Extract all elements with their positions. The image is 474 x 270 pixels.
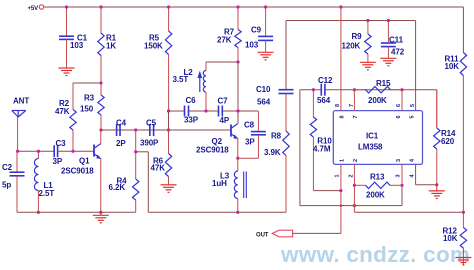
junction C9 top rail: [264, 5, 267, 8]
wire pin3 vertical: [401, 185, 403, 205]
label R4: [109, 177, 128, 193]
junction R7 top rail: [236, 5, 239, 8]
label R5: [144, 34, 163, 51]
svg-text:IC1: IC1: [366, 132, 379, 141]
svg-text:R3: R3: [84, 94, 95, 103]
label R9: [342, 32, 363, 51]
svg-text:47K: 47K: [55, 107, 70, 116]
junction pin8 rail: [339, 5, 342, 8]
svg-text:3: 3: [396, 159, 402, 162]
label R10: [313, 137, 332, 154]
resistor R3: [98, 83, 104, 130]
ground at pin4/R14: [429, 185, 445, 199]
junction R5 top rail: [167, 5, 170, 8]
svg-text:OUT: OUT: [256, 232, 269, 238]
arrow of adjustable L2: [197, 71, 202, 92]
junction R6 top node: [167, 128, 170, 131]
label L2: [173, 68, 194, 84]
wire C6 C7 oscillator node: [169, 110, 259, 112]
ground below R6: [161, 185, 177, 193]
resistor R1: [98, 7, 104, 83]
junction Q1 emitter rail: [99, 211, 102, 214]
svg-text:1: 1: [340, 159, 346, 162]
junction pin6 node: [400, 88, 403, 91]
svg-text:7: 7: [353, 115, 359, 118]
capacitor C12: [321, 84, 325, 96]
wire C10 top vertical: [285, 21, 287, 90]
wire pin4 to ground node: [416, 164, 437, 184]
pin 3 wire: [401, 164, 403, 185]
junction R3 bottom node: [99, 128, 102, 131]
svg-text:C9: C9: [251, 26, 262, 35]
svg-text:10K: 10K: [443, 234, 458, 243]
wire +5V top rail: [44, 6, 464, 8]
junction pin1 node: [339, 189, 342, 192]
svg-text:3: 3: [396, 174, 402, 177]
wire R5 bottom vertical: [168, 111, 170, 130]
svg-text:390P: 390P: [140, 139, 159, 148]
label R2: [55, 99, 70, 116]
transistor Q1: [94, 130, 101, 212]
ground below R12: [455, 248, 471, 266]
svg-text:103: 103: [245, 41, 259, 50]
label R12: [443, 226, 458, 243]
label C7: [218, 97, 230, 126]
svg-text:120K: 120K: [342, 42, 361, 51]
pin 6 wire: [401, 90, 403, 111]
junction pin3 R13 node: [400, 184, 403, 187]
label C12: [317, 76, 333, 105]
pin number 2: [349, 159, 360, 178]
junction C6 left node: [167, 109, 170, 112]
op-amp IC1 LM358 body: [333, 111, 422, 165]
junction C11 top: [387, 19, 390, 22]
capacitor C11: [381, 21, 396, 59]
svg-text:R8: R8: [271, 132, 282, 141]
svg-text:ANT: ANT: [13, 97, 29, 106]
label R3: [80, 94, 95, 114]
watermark www.cndzz.com: [280, 242, 470, 267]
junction pin1 crossing: [340, 204, 343, 207]
wire R1 bottom to R2 top: [73, 82, 101, 84]
svg-text:2SC9018: 2SC9018: [196, 146, 229, 155]
capacitor C10: [279, 90, 294, 131]
svg-text:C4: C4: [116, 119, 127, 128]
svg-text:2SC9018: 2SC9018: [61, 167, 94, 176]
junction L1 bottom rail: [37, 211, 40, 214]
wire R10 bottom to pin1: [313, 190, 341, 192]
svg-text:10K: 10K: [445, 62, 460, 71]
inductor L1: [34, 151, 38, 212]
junction R9 top: [366, 19, 369, 22]
svg-text:1: 1: [335, 174, 341, 177]
wire pin1 out to arrow: [293, 232, 341, 234]
svg-text:R9: R9: [352, 32, 363, 41]
label R1: [106, 34, 117, 51]
svg-text:2.5T: 2.5T: [39, 189, 55, 198]
ground below C11: [380, 58, 396, 66]
inductor L2: [203, 62, 206, 111]
svg-text:C8: C8: [244, 121, 255, 130]
svg-text:2P: 2P: [116, 139, 126, 148]
resistor R11: [460, 53, 466, 212]
junction L1 top: [37, 150, 40, 153]
ground below C1: [59, 68, 75, 76]
svg-text:3P: 3P: [245, 137, 255, 146]
svg-text:5: 5: [410, 115, 416, 118]
wire C12 node down left side: [299, 90, 301, 206]
svg-text:27K: 27K: [217, 36, 232, 45]
label Q2: [196, 137, 229, 155]
label OUT: [256, 232, 269, 238]
svg-text:5: 5: [410, 104, 416, 107]
ground at Q1 emitter rail: [93, 212, 109, 223]
label C8: [244, 121, 255, 147]
label L1: [39, 181, 55, 198]
label L3: [212, 172, 230, 189]
svg-text:C6: C6: [186, 96, 197, 105]
svg-text:472: 472: [391, 48, 405, 57]
pin number 8: [335, 104, 346, 119]
svg-text:564: 564: [317, 96, 331, 105]
svg-text:200K: 200K: [366, 191, 385, 200]
svg-text:C2: C2: [2, 163, 13, 172]
wire ground rail left: [17, 211, 136, 213]
junction R1 top rail: [99, 5, 102, 8]
junction R1/R3 node: [99, 81, 102, 84]
svg-text:200K: 200K: [368, 96, 387, 105]
label IC1: [358, 132, 383, 152]
label R14: [441, 129, 456, 146]
label R7: [217, 28, 235, 45]
wire C3 to Q1 base: [58, 150, 94, 152]
output terminal OUT arrow: [272, 230, 292, 237]
wire pin3 net horizontal: [300, 205, 402, 207]
resistor R8: [283, 131, 289, 212]
svg-text:150K: 150K: [144, 42, 163, 51]
capacitor C4: [117, 124, 120, 136]
+5V power terminal: [28, 5, 44, 12]
svg-text:6: 6: [396, 104, 402, 107]
wire pin5 net horizontal: [286, 20, 416, 22]
junction pin7 node: [353, 88, 356, 91]
capacitor C5: [150, 124, 154, 136]
wire top-right corner down to R11: [462, 7, 464, 53]
resistor R9: [365, 21, 371, 63]
pin 1 wire: [340, 164, 342, 233]
pin number 4: [410, 158, 416, 178]
pin 8 wire: [340, 7, 342, 111]
label R11: [445, 55, 460, 72]
inductor L3: [234, 158, 237, 212]
label C2: [2, 163, 13, 190]
svg-text:3P: 3P: [53, 157, 63, 166]
resistor R12: [460, 212, 466, 248]
svg-text:C7: C7: [218, 97, 229, 106]
wire pin2 to R12: [354, 211, 463, 213]
junction R14 bottom: [435, 183, 438, 186]
pin number 3: [396, 159, 403, 178]
label C10: [256, 85, 271, 107]
svg-text:1K: 1K: [106, 42, 116, 51]
wire R7 bottom to L2 top: [206, 61, 238, 63]
wire Q2 collector vertical: [237, 62, 239, 123]
capacitor C1: [59, 7, 74, 68]
junction pin2 R13 node: [353, 184, 356, 187]
label C11: [389, 36, 405, 57]
resistor R7: [235, 7, 241, 62]
core lines of L3: [244, 172, 247, 199]
svg-text:33P: 33P: [184, 116, 199, 125]
svg-text:47K: 47K: [151, 164, 166, 173]
resistor R6: [165, 130, 171, 185]
label ANT: [13, 97, 29, 106]
junction Q2 emitter / C8 node: [236, 157, 239, 160]
capacitor C8: [238, 111, 266, 158]
svg-text:6.2K: 6.2K: [109, 183, 126, 192]
svg-text:3.5T: 3.5T: [173, 75, 189, 84]
resistor R14: [434, 90, 440, 185]
svg-text:4.7M: 4.7M: [313, 145, 331, 154]
label C6: [184, 96, 199, 125]
pin number 1: [335, 159, 346, 178]
resistor R10: [310, 90, 316, 191]
label C1: [70, 34, 88, 51]
svg-text:150: 150: [80, 105, 94, 114]
capacitor C6: [185, 106, 189, 117]
wire collector node to Q2 base: [101, 129, 230, 131]
junction L2 bottom: [204, 109, 207, 112]
svg-text:2: 2: [349, 174, 355, 177]
junction C4/C5 node: [134, 128, 137, 131]
pin number 6: [396, 104, 402, 119]
svg-text:5p: 5p: [2, 181, 11, 190]
svg-text:6: 6: [396, 115, 402, 118]
label Q1: [61, 157, 94, 176]
label C3: [53, 139, 67, 166]
svg-text:8: 8: [340, 115, 346, 118]
capacitor C9: [258, 7, 273, 52]
svg-text:1uH: 1uH: [212, 179, 227, 188]
svg-text:3.9K: 3.9K: [264, 148, 281, 157]
svg-text:C12: C12: [318, 76, 333, 85]
svg-text:8: 8: [335, 104, 341, 107]
label R8: [264, 132, 282, 158]
svg-text:LM358: LM358: [358, 143, 383, 152]
junction pin2 crossing: [353, 204, 356, 207]
svg-text:C11: C11: [389, 36, 404, 45]
resistor R4: [133, 130, 139, 212]
label R13: [366, 173, 385, 200]
svg-text:www. cndzz. com: www. cndzz. com: [280, 242, 470, 267]
transistor Q2: [231, 124, 238, 159]
junction R10 top: [312, 88, 315, 91]
label R15: [368, 79, 391, 105]
resistor R15: [354, 87, 402, 93]
svg-text:C3: C3: [56, 139, 67, 148]
wire opamp filter node: [300, 89, 437, 91]
junction L3 bottom rail: [236, 211, 239, 214]
resistor R5: [165, 7, 171, 111]
svg-text:4P: 4P: [220, 116, 230, 125]
resistor R13: [354, 182, 402, 188]
svg-text:+5V: +5V: [28, 6, 39, 12]
wire pin5 net vertical right: [415, 21, 417, 111]
svg-text:R13: R13: [370, 173, 385, 182]
label C4: [116, 119, 127, 149]
capacitor C3: [54, 145, 57, 157]
wire antenna node to C3: [18, 150, 55, 152]
junction R7/L2 node: [236, 60, 239, 63]
label C9: [245, 26, 262, 50]
junction R2 bottom on base wire: [71, 150, 74, 153]
antenna ANT: [12, 111, 26, 152]
junction Q2 collector node: [236, 109, 239, 112]
svg-text:C10: C10: [256, 85, 271, 94]
junction R4 top node: [134, 150, 137, 153]
ground below R9: [360, 62, 376, 70]
label R6: [151, 157, 166, 173]
svg-text:620: 620: [441, 137, 455, 146]
pin number 7: [349, 104, 359, 119]
wire R4 node to mid rail: [136, 152, 149, 213]
wire R15 node corner to R14: [436, 90, 438, 128]
pin 2 wire: [353, 164, 355, 212]
svg-text:Q1: Q1: [79, 157, 90, 166]
junction C1 top rail: [65, 5, 68, 8]
capacitor C2: [10, 151, 25, 212]
junction antenna node: [16, 150, 19, 153]
svg-text:564: 564: [257, 98, 271, 107]
svg-text:7: 7: [349, 104, 355, 107]
wire emitter rail mid: [148, 211, 286, 213]
svg-text:103: 103: [70, 41, 84, 50]
resistor R2: [70, 83, 76, 151]
pin 7 wire: [353, 90, 355, 111]
svg-text:R15: R15: [376, 79, 391, 88]
ground below C9: [258, 52, 274, 60]
label C5: [140, 119, 159, 148]
junction R12 top node: [462, 211, 465, 214]
svg-text:C5: C5: [146, 119, 157, 128]
pin number 5: [410, 104, 417, 119]
capacitor C7: [219, 106, 223, 117]
svg-text:2: 2: [353, 159, 359, 162]
